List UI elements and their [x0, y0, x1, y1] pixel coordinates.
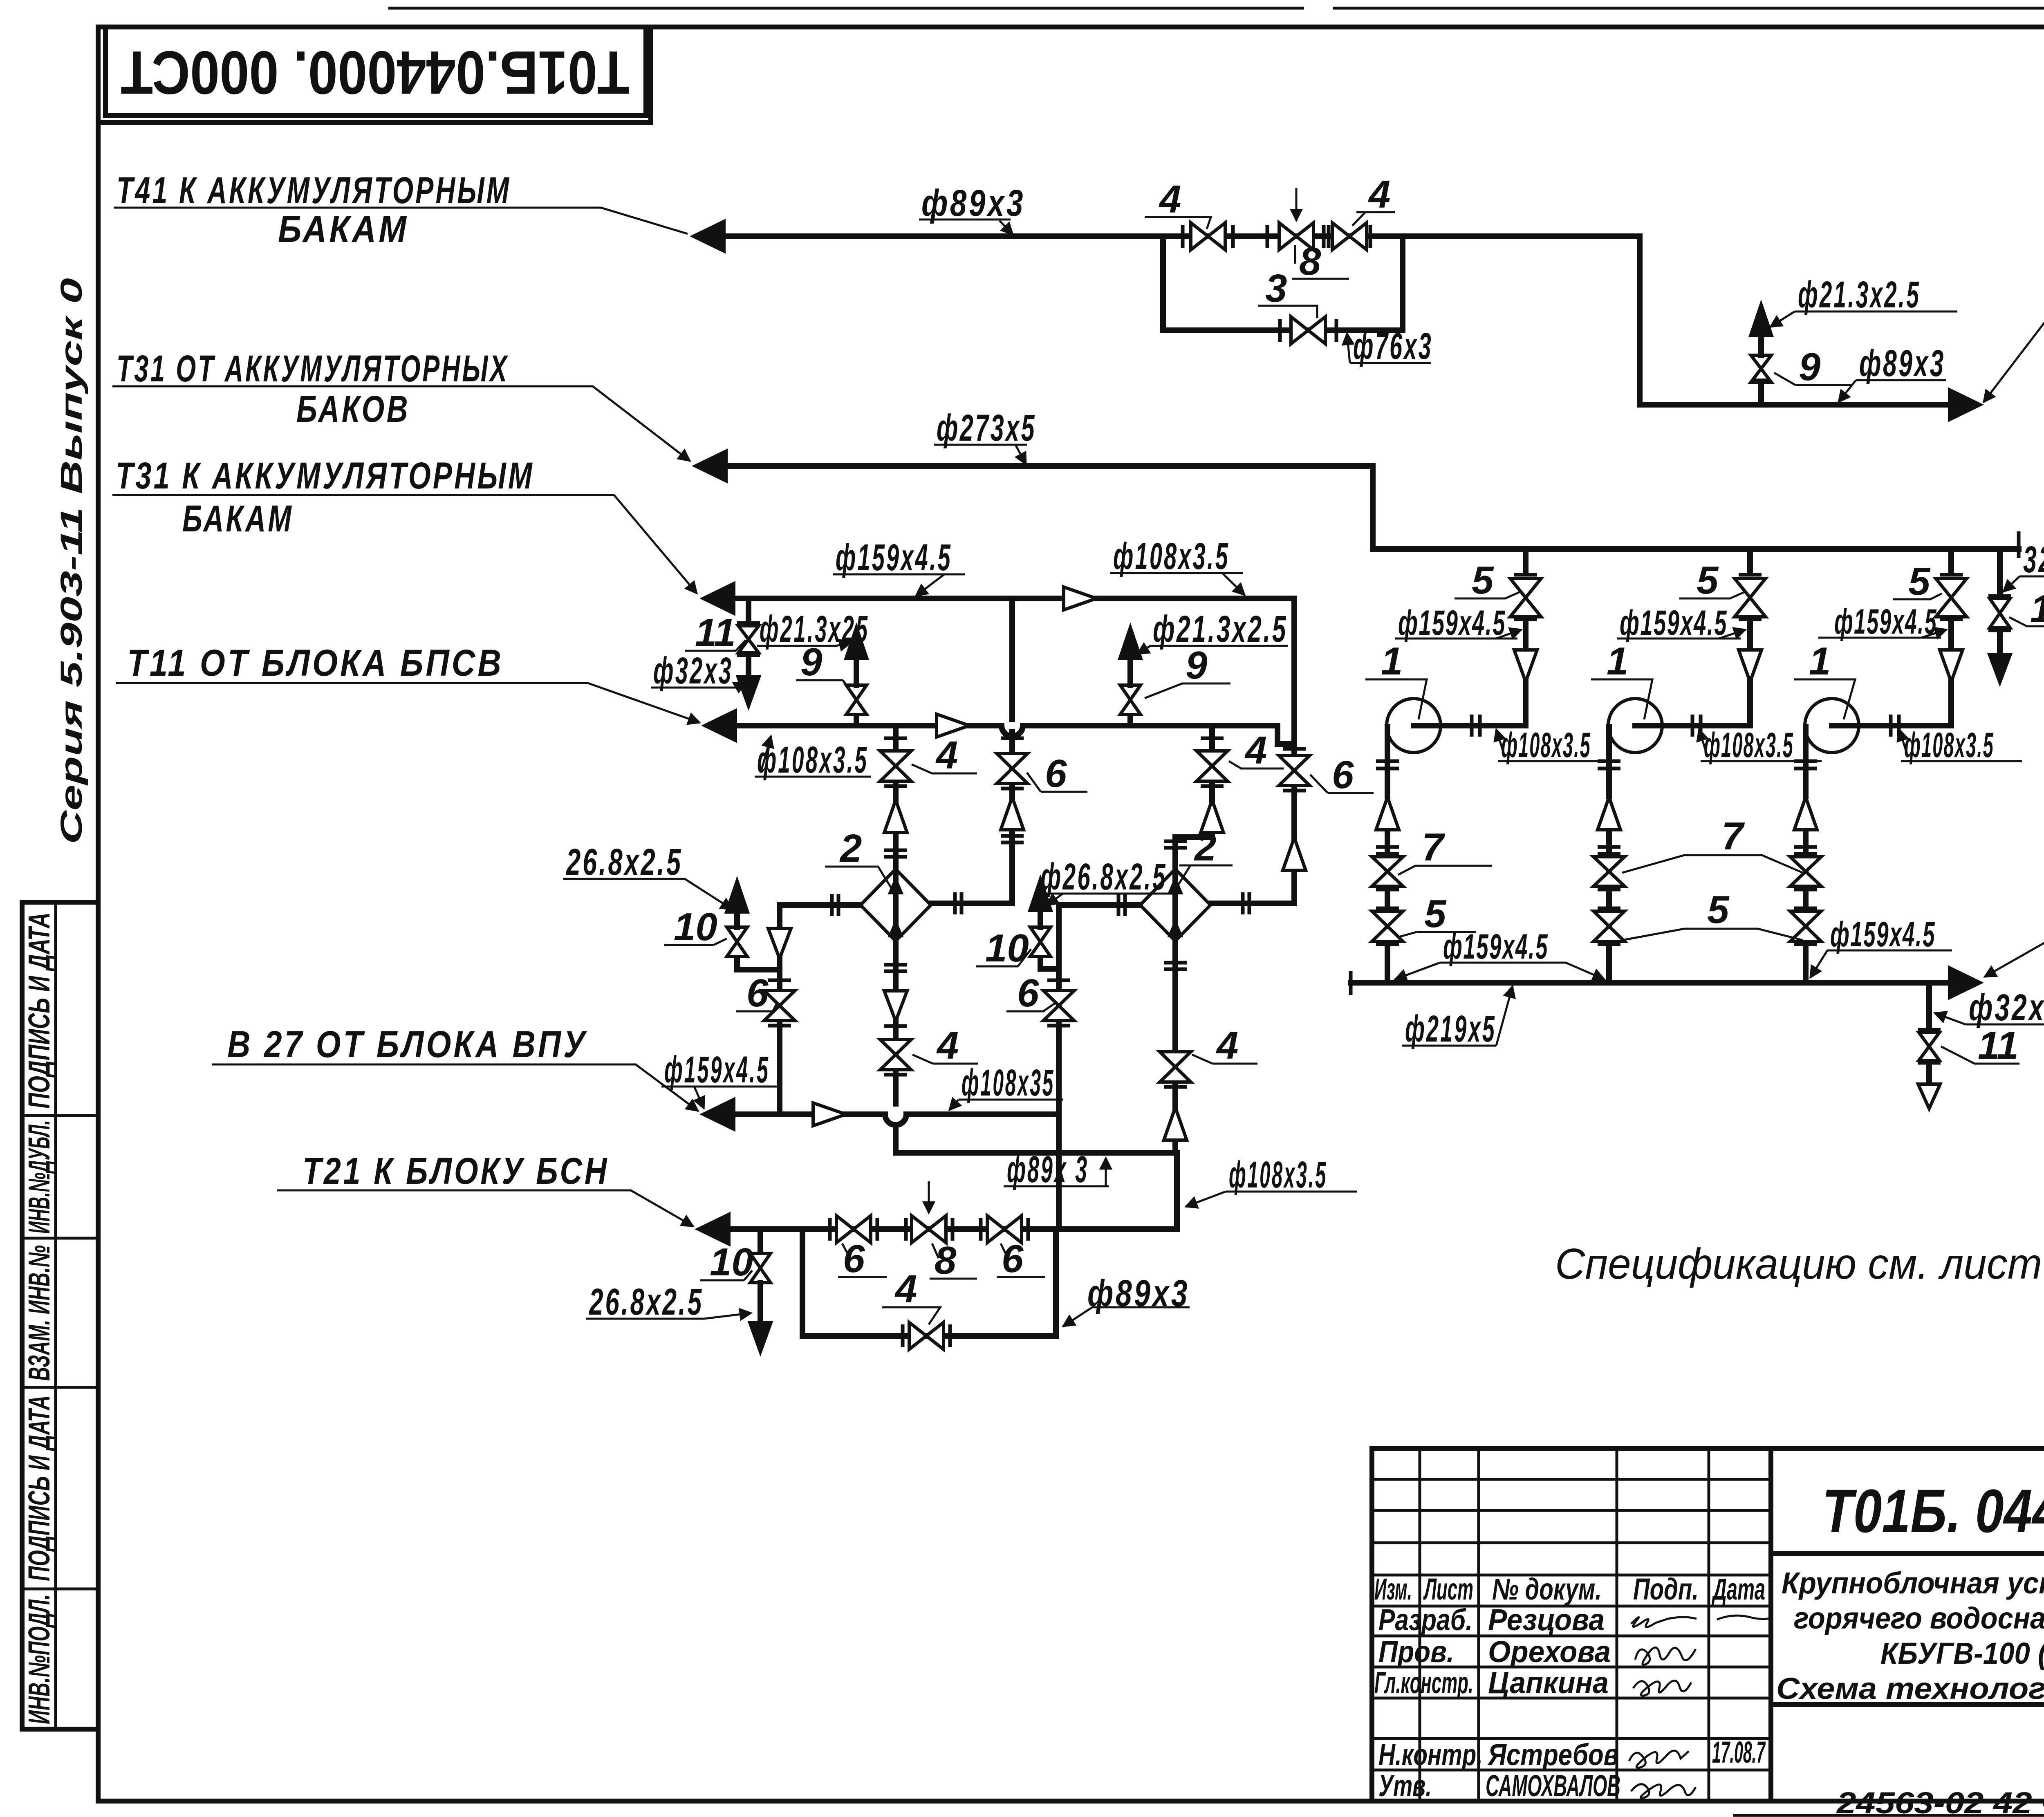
- svg-text:4: 4: [935, 733, 958, 777]
- sidebar cell: Inv. No podl.: [22, 1594, 56, 1724]
- hop HX1 column over V27 line: [885, 1114, 906, 1125]
- drain 11 on L1: [746, 598, 751, 621]
- pump 1 suction column: [1385, 727, 1390, 983]
- svg-text:ф159х4.5: ф159х4.5: [1834, 602, 1937, 641]
- leader T31 from tanks: [112, 386, 690, 461]
- port arrow T21: [697, 1214, 729, 1245]
- signature n.kontr: [1629, 1751, 1689, 1768]
- svg-text:горячего водоснабжения: горячего водоснабжения: [1794, 1601, 2044, 1635]
- svg-text:БАКАМ: БАКАМ: [278, 208, 409, 250]
- svg-text:1: 1: [1381, 639, 1403, 683]
- svg-text:9: 9: [800, 640, 822, 684]
- leader T21: [277, 1190, 693, 1226]
- stamp text T01B.044000.000ST rotated: [121, 38, 630, 107]
- valve 6 (T21 left): [828, 1218, 832, 1241]
- hop L2 over V1: [1002, 726, 1023, 736]
- svg-text:Т11 ОТ БЛОКА БПСВ: Т11 ОТ БЛОКА БПСВ: [127, 642, 504, 684]
- svg-text:26.8х2.5: 26.8х2.5: [589, 1281, 704, 1323]
- svg-text:Спецификацию см. лист 2: Спецификацию см. лист 2: [1555, 1240, 2044, 1288]
- manifold end cap: [2017, 531, 2021, 558]
- svg-text:ф108х3.5: ф108х3.5: [1229, 1154, 1327, 1196]
- sidebar cell: Vzam. inv. No: [22, 1245, 56, 1381]
- leader T31 into network: [1984, 913, 2044, 977]
- svg-text:Гл.констр.: Гл.констр.: [1374, 1666, 1473, 1700]
- control valve 8: [1266, 225, 1269, 248]
- svg-text:Дата: Дата: [1711, 1572, 1765, 1606]
- svg-text:6: 6: [1045, 752, 1067, 795]
- stamp inner box: [105, 27, 646, 115]
- pump 1 circle: [1387, 699, 1441, 753]
- valve 3 on bypass: [1278, 319, 1282, 342]
- port arrow T41 out: [693, 221, 724, 252]
- svg-text:ф21.3х2.5: ф21.3х2.5: [1798, 274, 1921, 316]
- svg-text:Т31 К АККУМУЛЯТОРНЫМ: Т31 К АККУМУЛЯТОРНЫМ: [116, 455, 534, 497]
- valve 4 (left on T41): [1181, 225, 1185, 248]
- svg-text:24563-02 42 ФорматА3: 24563-02 42 ФорматА3: [1836, 1786, 2044, 1817]
- svg-text:7: 7: [1721, 814, 1745, 858]
- svg-text:7: 7: [1422, 825, 1446, 869]
- svg-text:10: 10: [674, 905, 717, 949]
- sidebar cell: Podpis i data (lower): [22, 1395, 56, 1581]
- pump 3 circle: [1805, 699, 1859, 753]
- port arrow T31 to tanks: [702, 583, 734, 614]
- leader T41 from network: [1983, 251, 2044, 402]
- svg-text:ф108х3.5: ф108х3.5: [757, 739, 868, 781]
- sidebar table: [22, 902, 98, 1729]
- vent on T41 inlet f21.3x2.5: [1758, 380, 1764, 405]
- top scan edge line: [388, 7, 1304, 10]
- svg-text:ф159х4.5: ф159х4.5: [1443, 927, 1549, 966]
- sidebar cell: Podpis i data (upper): [22, 912, 56, 1109]
- pump 3 riser: [1859, 549, 1951, 726]
- flow triangle on L1: [1064, 587, 1096, 610]
- svg-text:БАКАМ: БАКАМ: [182, 498, 294, 540]
- port arrow T11: [704, 710, 736, 741]
- svg-text:Схема технологическая: Схема технологическая: [1776, 1671, 2044, 1705]
- manifold start cap: [1349, 971, 1353, 995]
- pipe V27 f159x4.5: [734, 1111, 1059, 1117]
- svg-text:ф108х35: ф108х35: [961, 1062, 1055, 1104]
- svg-text:ф219х5: ф219х5: [1405, 1008, 1496, 1050]
- signature prov: [1635, 1647, 1696, 1665]
- valve 6 (T21 right): [979, 1218, 983, 1241]
- leader T41 tanks: [114, 208, 688, 234]
- svg-text:Цапкина: Цапкина: [1488, 1666, 1609, 1700]
- svg-text:11: 11: [695, 611, 736, 654]
- svg-text:ф108х3.5: ф108х3.5: [1904, 726, 1994, 765]
- svg-text:4: 4: [936, 1024, 959, 1067]
- svg-text:6: 6: [1017, 971, 1039, 1015]
- svg-text:Изм.: Изм.: [1374, 1572, 1412, 1606]
- pump 2 suction column: [1606, 727, 1612, 983]
- port arrow T31 out: [1949, 967, 1981, 998]
- svg-text:3: 3: [1265, 267, 1287, 310]
- port arrow V27: [702, 1099, 734, 1130]
- svg-text:Крупноблочная установка: Крупноблочная установка: [1782, 1566, 2044, 1600]
- svg-text:ф159х4.5: ф159х4.5: [836, 537, 952, 578]
- manifold drain f32x3 valve 11: [1926, 983, 1932, 1027]
- svg-text:32х3: 32х3: [2023, 539, 2044, 580]
- flanges HX2 right: [1241, 892, 1245, 914]
- svg-text:ф89х3: ф89х3: [921, 182, 1025, 224]
- vent/drain with valve 10 (HX1): [734, 957, 740, 970]
- bypass pipe f76x3: [1163, 236, 1403, 330]
- svg-text:ИНВ.№ДУБЛ.: ИНВ.№ДУБЛ.: [22, 1120, 56, 1234]
- control valve 8 (T21): [904, 1218, 908, 1241]
- svg-text:4: 4: [894, 1267, 917, 1311]
- flow triangle on L2: [937, 714, 969, 737]
- svg-text:Пров.: Пров.: [1378, 1635, 1454, 1669]
- svg-text:ф108х3.5: ф108х3.5: [1501, 726, 1591, 765]
- pipe V2: [1210, 744, 1294, 903]
- pipe L1 f159x4.5 / f108x3.5: [734, 598, 1294, 744]
- svg-text:8: 8: [935, 1239, 957, 1282]
- leader V27: [212, 1064, 698, 1111]
- pipe T21 f89x3: [729, 1226, 1177, 1232]
- flow triangle on V27: [813, 1103, 846, 1126]
- svg-text:6: 6: [1002, 1237, 1024, 1281]
- svg-text:Орехова: Орехова: [1488, 1635, 1611, 1669]
- svg-text:ф159х4.5: ф159х4.5: [664, 1049, 770, 1091]
- svg-text:9: 9: [1799, 345, 1820, 389]
- svg-text:ф108х3.5: ф108х3.5: [1113, 535, 1230, 577]
- svg-text:6: 6: [1332, 753, 1354, 797]
- svg-text:8: 8: [1299, 240, 1321, 283]
- svg-text:Лист: Лист: [1423, 1572, 1473, 1606]
- svg-text:Резцова: Резцова: [1488, 1603, 1605, 1637]
- pump 2 circle: [1608, 699, 1662, 753]
- svg-text:САМОХВАЛОВ: САМОХВАЛОВ: [1486, 1769, 1620, 1803]
- svg-text:Н.контр.: Н.контр.: [1378, 1738, 1483, 1772]
- valve 4 (T21 bypass): [901, 1324, 905, 1347]
- svg-text:Т21 К БЛОКУ БСН: Т21 К БЛОКУ БСН: [303, 1150, 609, 1192]
- sidebar series text: [54, 278, 88, 844]
- svg-text:Серия 5.903-11 Выпуск 0: Серия 5.903-11 Выпуск 0: [54, 278, 88, 844]
- svg-text:Подп.: Подп.: [1633, 1572, 1699, 1606]
- svg-text:5: 5: [1707, 888, 1730, 932]
- pump 2 riser: [1662, 549, 1750, 726]
- svg-text:10: 10: [985, 926, 1029, 970]
- svg-text:11: 11: [2030, 587, 2044, 631]
- TITLEBLOCK: [1372, 1448, 2044, 1817]
- stamp outer box: [98, 27, 651, 123]
- svg-text:17.08.7: 17.08.7: [1712, 1735, 1766, 1769]
- pipe L2 f108x3.5: [736, 726, 1294, 744]
- pipe T41 main: [724, 236, 1951, 405]
- sidebar table grid: [22, 902, 98, 1729]
- svg-text:4: 4: [1244, 728, 1267, 772]
- svg-text:ф159х4.5: ф159х4.5: [1830, 915, 1936, 954]
- svg-text:9: 9: [1186, 643, 1207, 687]
- svg-text:ф21.3х2.5: ф21.3х2.5: [1153, 608, 1288, 650]
- svg-text:ф89х 3: ф89х 3: [1007, 1149, 1089, 1190]
- valve 4 (right on T41): [1327, 225, 1331, 248]
- svg-text:ВЗАМ. ИНВ.№: ВЗАМ. ИНВ.№: [22, 1245, 56, 1381]
- svg-text:2: 2: [1194, 825, 1216, 869]
- svg-text:Разраб.: Разраб.: [1378, 1603, 1472, 1637]
- vent 1 with valve 9: [854, 715, 859, 726]
- svg-text:1: 1: [1607, 639, 1628, 683]
- leader T11: [116, 683, 700, 723]
- pump 3 suction column: [1803, 727, 1809, 983]
- svg-text:ф89х3: ф89х3: [1859, 343, 1945, 384]
- svg-text:Ястребов: Ястребов: [1487, 1738, 1619, 1772]
- signature gl.konstr: [1633, 1680, 1691, 1696]
- svg-text:Т41 К АККУМУЛЯТОРНЫМ: Т41 К АККУМУЛЯТОРНЫМ: [117, 170, 511, 211]
- title block main divider: [1768, 1448, 1773, 1801]
- svg-text:5: 5: [1908, 560, 1931, 603]
- svg-text:11: 11: [1978, 1024, 2019, 1067]
- svg-text:6: 6: [746, 971, 769, 1015]
- bypass f89x3 (T21): [802, 1229, 1056, 1336]
- svg-text:ф26.8х2.5: ф26.8х2.5: [1040, 856, 1167, 898]
- svg-text:БАКОВ: БАКОВ: [296, 388, 410, 430]
- svg-text:ф32х3: ф32х3: [1969, 987, 2044, 1028]
- flanges HX1 right: [953, 892, 957, 914]
- svg-text:ПОДПИСЬ И ДАТА: ПОДПИСЬ И ДАТА: [22, 912, 56, 1109]
- vent 2 with valve 9: [1127, 715, 1133, 726]
- port arrow T41 in (to network side): [1949, 389, 1981, 420]
- svg-text:ф32х3: ф32х3: [653, 650, 733, 692]
- port arrow T31 from tanks: [695, 450, 726, 482]
- svg-text:4: 4: [1368, 173, 1390, 216]
- svg-text:5: 5: [1472, 558, 1494, 602]
- svg-text:ф76х3: ф76х3: [1353, 325, 1433, 367]
- svg-text:В 27 ОТ БЛОКА ВПУ: В 27 ОТ БЛОКА ВПУ: [227, 1024, 587, 1065]
- svg-text:2: 2: [839, 827, 862, 870]
- svg-text:26.8х2.5: 26.8х2.5: [566, 841, 683, 883]
- title block left grid verticals: [1419, 1448, 1421, 1801]
- svg-text:Т01Б.044000. 000СТ: Т01Б.044000. 000СТ: [121, 38, 630, 107]
- svg-text:ИНВ.№ПОДЛ.: ИНВ.№ПОДЛ.: [22, 1594, 56, 1724]
- manifold drain 32x3 with valve 11: [1997, 549, 2003, 594]
- leader T31 to tanks: [112, 495, 697, 594]
- svg-text:6: 6: [843, 1237, 865, 1281]
- svg-text:ф159х4.5: ф159х4.5: [1620, 603, 1728, 643]
- svg-text:Утв.: Утв.: [1378, 1769, 1432, 1803]
- svg-text:Т31 ОТ АККУМУЛЯТОРНЫХ: Т31 ОТ АККУМУЛЯТОРНЫХ: [117, 348, 509, 390]
- svg-text:ПОДПИСЬ И ДАТА: ПОДПИСЬ И ДАТА: [22, 1395, 56, 1581]
- pump 1 riser: [1441, 549, 1526, 726]
- pipe f273x5: [726, 466, 2019, 549]
- title block left grid horizontals: [1372, 1478, 1771, 1481]
- title block outer: [1372, 1448, 2044, 1801]
- svg-text:4: 4: [1159, 177, 1181, 221]
- pipe bottom manifold f219x5: [1351, 980, 1950, 986]
- pipe V1: [931, 598, 1012, 903]
- svg-text:ф159х4.5: ф159х4.5: [1398, 603, 1506, 643]
- svg-text:1: 1: [1809, 639, 1831, 683]
- svg-text:№ докум.: № докум.: [1492, 1572, 1602, 1606]
- svg-text:5: 5: [1697, 558, 1719, 602]
- vent/drain with valve 10 (HX2): [1038, 957, 1043, 969]
- sidebar cell: Inv. No dubl.: [22, 1120, 56, 1234]
- signature razrab: [1631, 1617, 1697, 1627]
- signature utv: [1631, 1784, 1696, 1798]
- drain with valve 10 (T21): [758, 1229, 763, 1253]
- svg-text:КБУГВ-100 (мс): КБУГВ-100 (мс): [1880, 1636, 2044, 1670]
- svg-text:Т01Б. 044000. 000СТ: Т01Б. 044000. 000СТ: [1822, 1476, 2044, 1545]
- doc number cell: [1771, 1551, 2044, 1556]
- bottom scan edge line: [1733, 1814, 2044, 1817]
- svg-text:ф273х5: ф273х5: [937, 407, 1036, 449]
- svg-text:4: 4: [1216, 1024, 1238, 1067]
- svg-text:ф108х3.5: ф108х3.5: [1704, 726, 1794, 765]
